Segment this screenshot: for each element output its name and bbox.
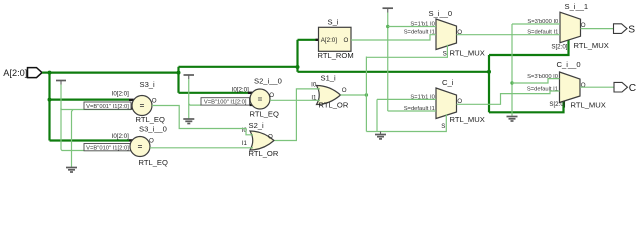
svg-text:=: =: [258, 95, 263, 104]
wire A bus horizontal y67 to x297: [179, 66, 298, 68]
svg-text:O: O: [342, 87, 347, 94]
svg-text:O: O: [149, 137, 154, 144]
comparator S3_i RTL_EQ: [112, 80, 165, 124]
svg-text:S2_i__0: S2_i__0: [254, 76, 282, 85]
pin stub S2_i__0 I0: [248, 92, 252, 94]
svg-text:C_i: C_i: [442, 78, 454, 87]
svg-text:V=B"100" I1[2:0]: V=B"100" I1[2:0]: [204, 100, 247, 106]
svg-text:S_i__0: S_i__0: [429, 9, 453, 18]
svg-text:S=3'b000 I0: S=3'b000 I0: [527, 74, 558, 80]
svg-text:O: O: [269, 92, 274, 99]
output port C: [614, 82, 636, 94]
wire A bus long horizontal y72: [298, 71, 490, 73]
mux C_i__0 RTL_MUX: [527, 60, 606, 109]
comparator S3_i__0 RTL_EQ: [112, 125, 168, 168]
wire A bus left vertical: [48, 73, 50, 141]
mux C_i RTL_MUX: [404, 78, 485, 130]
node junction x178: [177, 71, 181, 75]
svg-text:A[2:0]: A[2:0]: [3, 68, 27, 78]
svg-text:V=B"001" I1[2:0]: V=B"001" I1[2:0]: [86, 104, 129, 110]
svg-text:S: S: [443, 51, 447, 58]
wire to S3_i__0 I1: [61, 150, 131, 151]
pin stub S3_i__0 I0: [129, 139, 134, 141]
or-gate S1_i RTL_OR: [311, 74, 349, 110]
mux S_i__0 RTL_MUX: [404, 9, 485, 58]
wire to C_i__0 I0: [512, 79, 560, 83]
svg-text:RTL_MUX: RTL_MUX: [450, 49, 485, 58]
svg-text:RTL_MUX: RTL_MUX: [571, 100, 606, 109]
svg-text:S_i__1: S_i__1: [565, 2, 589, 11]
wire A bus vertical to ROM: [296, 40, 298, 72]
wire A bus to S3_i__0 I0: [50, 139, 130, 141]
wire to C_i I1: [388, 110, 436, 112]
svg-text:RTL_EQ: RTL_EQ: [250, 110, 279, 119]
wire const to S_i__0 I0: [388, 26, 436, 28]
svg-text:S3_i: S3_i: [140, 80, 156, 89]
comparator S2_i__0 RTL_EQ: [232, 76, 282, 118]
wire A bus to ROM input: [298, 39, 316, 41]
ground on select net: [375, 132, 386, 139]
svg-text:RTL_EQ: RTL_EQ: [139, 158, 168, 167]
node junction x297: [296, 65, 300, 69]
wire S3_i O to S2_i I0: [152, 106, 253, 135]
svg-text:I0[2:0]: I0[2:0]: [232, 86, 249, 93]
svg-text:O: O: [343, 37, 348, 44]
pin stub S2_i__0 I1: [250, 104, 253, 106]
wire vertical x377: [376, 99, 378, 131]
wire C_i O to C_i__0 I1: [457, 91, 560, 104]
wire branch down x71.5: [72, 110, 74, 168]
svg-text:O: O: [268, 134, 273, 141]
output port S: [614, 24, 636, 36]
svg-text:S: S: [441, 123, 445, 130]
wire to S3_i I1: [61, 108, 131, 110]
node junction A-port: [48, 71, 52, 75]
wire to C_i I0: [377, 98, 436, 100]
wire S1 to S_i__0 select: [366, 45, 447, 58]
svg-text:V=B"010" I1[2:0]: V=B"010" I1[2:0]: [86, 145, 129, 151]
wire A bus top horizontal to junction x178: [50, 71, 179, 73]
wire to S_i__1 I0: [512, 23, 560, 25]
wire C_i__0 O to port C: [580, 86, 614, 88]
power constant T-bar middle: [184, 75, 195, 79]
or-gate S2_i RTL_OR: [242, 121, 279, 158]
value box V=B"010": [84, 144, 131, 152]
wire constant vertical x188: [188, 79, 190, 119]
node S1 dot: [365, 93, 368, 96]
node junction left column: [48, 98, 52, 102]
svg-text:I0[2:0]: I0[2:0]: [112, 90, 129, 97]
wire A bus vertical x178: [177, 67, 179, 93]
wire A bus to S2_i__0 I0: [179, 92, 249, 94]
svg-text:S[2:0]: S[2:0]: [551, 44, 567, 51]
svg-text:I1: I1: [242, 140, 248, 147]
ground left: [66, 168, 77, 173]
svg-text:I0: I0: [311, 81, 317, 88]
power constant T-bar right: [383, 8, 394, 12]
wire ROM O to S_i__0 I1: [351, 35, 436, 40]
pin stub S3_i__0 I1: [128, 147, 131, 149]
wire S_i__0 O to S_i__1 I1: [457, 34, 561, 36]
wire S1_i O: [341, 94, 367, 96]
ground middle: [183, 119, 194, 124]
svg-text:S2_i: S2_i: [249, 121, 265, 130]
wire S2_i__0 O to S1_i I1: [270, 99, 320, 101]
pin stub S3_i I0: [129, 99, 134, 101]
value box V=B"001": [84, 102, 131, 110]
svg-text:S3_i__0: S3_i__0: [139, 125, 167, 134]
pin stub S3_i I1: [130, 107, 134, 109]
svg-text:RTL_OR: RTL_OR: [249, 149, 279, 158]
wire const0 vertical x512: [511, 24, 513, 116]
svg-text:RTL_EQ: RTL_EQ: [136, 115, 165, 124]
rom S_i RTL_ROM: [318, 18, 354, 60]
wire S1 to C_i select: [366, 114, 446, 131]
svg-text:I0: I0: [242, 127, 248, 134]
pin stub ROM A: [316, 39, 320, 41]
wire S3_i__0 O to S2_i I1: [150, 147, 253, 149]
svg-text:S_i: S_i: [328, 18, 339, 27]
svg-text:RTL_MUX: RTL_MUX: [574, 41, 609, 50]
svg-text:RTL_MUX: RTL_MUX: [450, 115, 485, 124]
svg-text:O: O: [581, 22, 586, 29]
svg-text:=: =: [138, 142, 143, 151]
wire A bus to C_i__0 select: [489, 100, 564, 112]
svg-text:C: C: [629, 83, 636, 94]
power constant T-bar left: [56, 81, 66, 85]
node const dot: [386, 25, 389, 28]
wire A bus to S3_i I0: [50, 98, 130, 100]
svg-text:S: S: [628, 25, 635, 36]
svg-text:C_i__0: C_i__0: [557, 60, 581, 69]
value box V=B"100": [201, 98, 250, 106]
ground right: [507, 117, 518, 122]
svg-text:O: O: [152, 97, 157, 104]
wire S_i__1 O to port S: [581, 28, 614, 30]
svg-text:I0[2:0]: I0[2:0]: [112, 133, 129, 140]
wire constant vertical x388: [387, 13, 389, 112]
wire A bus vertical x489: [488, 55, 490, 112]
svg-text:RTL_OR: RTL_OR: [319, 101, 349, 110]
wire constant vertical x61: [60, 85, 62, 150]
wire to S2_i__0 I1: [189, 104, 201, 105]
svg-text:RTL_ROM: RTL_ROM: [318, 51, 354, 60]
wire S2_i O to S1_i I0: [275, 89, 321, 141]
wire A bus to S_i__1 select: [489, 40, 569, 55]
node junction x489: [487, 70, 491, 74]
input port A[2:0]: [3, 68, 49, 79]
svg-text:A[2:0]: A[2:0]: [321, 37, 337, 44]
node const0 dot: [510, 81, 513, 84]
svg-text:S1_i: S1_i: [321, 74, 337, 83]
mux S_i__1 RTL_MUX: [527, 2, 609, 50]
wire S1 vertical: [365, 57, 367, 132]
svg-text:=: =: [140, 101, 145, 110]
svg-text:S[2:0]: S[2:0]: [549, 101, 565, 108]
